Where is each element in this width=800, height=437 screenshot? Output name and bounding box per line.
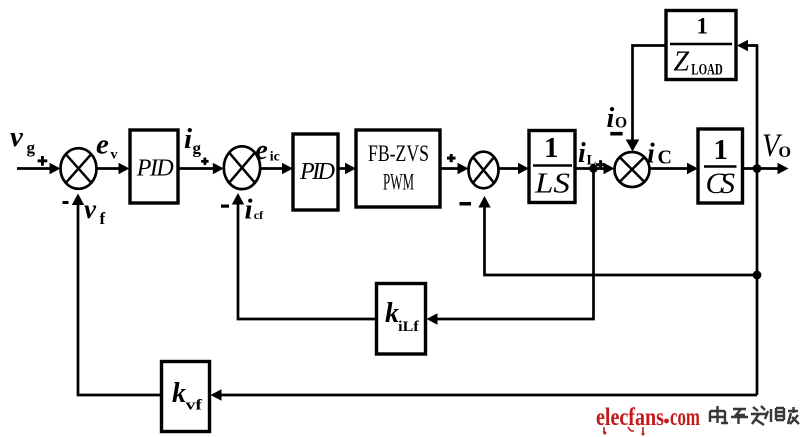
wire input to summing junction S1 (17, 163, 61, 174)
block k_iLf (377, 284, 426, 355)
wire V_O feedback to k_vf input (211, 389, 758, 400)
svg-text:i: i (245, 194, 253, 226)
svg-text:ic: ic (270, 150, 280, 165)
block FB-ZVS PWM (356, 130, 440, 207)
svg-text:f: f (100, 209, 106, 228)
wire k_iLf output to S2 minus input (232, 193, 377, 319)
svg-text:i: i (607, 103, 615, 134)
label v_g+ input (10, 121, 47, 166)
svg-text:PWM: PWM (383, 170, 414, 196)
svg-text:PID: PID (136, 156, 174, 182)
wire 1/LS to summing junction S4 (575, 163, 615, 174)
svg-text:PID: PID (299, 159, 335, 185)
logo elecfans.com (596, 404, 700, 436)
svg-text:g: g (193, 139, 202, 158)
svg-text:k: k (385, 298, 399, 329)
svg-text:v: v (84, 194, 97, 224)
sign minus at S3 (460, 202, 472, 206)
block PID1 (130, 130, 178, 203)
sign minus at S2 (221, 205, 229, 208)
wire i_L node down to k_iLf input (427, 169, 594, 325)
svg-text:i: i (578, 138, 586, 169)
label e_v (96, 129, 118, 163)
svg-text:1: 1 (544, 132, 559, 164)
label e_ic (255, 134, 280, 166)
wire S4 to 1/CS block (650, 163, 699, 174)
svg-text:e: e (96, 129, 109, 161)
wire S3 to 1/LS block (499, 163, 530, 174)
label i_L+ (578, 138, 605, 169)
label i_cf (245, 194, 265, 226)
svg-text:e: e (255, 134, 268, 166)
svg-text:vf: vf (186, 398, 204, 414)
block 1/LS (529, 131, 575, 203)
block 1/CS (698, 129, 743, 203)
sign plus at S3 (447, 154, 456, 162)
logo chinese characters (710, 406, 799, 425)
wire S2 to PID2 (260, 163, 293, 174)
summing junction S3 (469, 152, 499, 189)
svg-text:iLf: iLf (398, 319, 420, 335)
svg-text:LOAD: LOAD (691, 62, 723, 79)
svg-text:1: 1 (697, 14, 709, 39)
wire FB-ZVS to summing junction S3 (440, 163, 469, 174)
wire V_O node up to Z_LOAD input (737, 40, 757, 169)
wire 1/CS to output (743, 163, 789, 174)
node dot V_O (753, 164, 762, 173)
block PID2 (293, 134, 338, 210)
svg-text:C: C (658, 147, 672, 169)
svg-text:Z: Z (674, 47, 690, 78)
svg-text:O: O (615, 115, 627, 132)
wire S1 to PID1 (97, 163, 130, 174)
node dot i_L (589, 164, 598, 173)
svg-text:O: O (779, 144, 791, 161)
svg-text:v: v (10, 121, 24, 153)
summing junction S2 (224, 146, 260, 189)
block 1/Z_LOAD (666, 11, 736, 80)
svg-text:com: com (670, 404, 700, 431)
wire V_O node down to k_vf level (756, 169, 759, 396)
block k_vf (162, 362, 210, 432)
svg-text:cf: cf (254, 208, 264, 222)
label i_O and minus sign (607, 103, 628, 136)
summing junction S4 (615, 152, 650, 187)
wire branch to S3 minus input (478, 196, 757, 275)
wire k_vf output to S1 minus input (72, 194, 162, 396)
label i_C (647, 139, 672, 170)
label v_f (84, 194, 106, 228)
sign minus at S1 (63, 201, 69, 204)
label V_O output (762, 128, 791, 164)
summing junction S1 (61, 148, 97, 189)
wire PID2 to FB-ZVS block (338, 163, 356, 174)
node dot feedback branch (753, 271, 762, 280)
svg-text:i: i (647, 139, 655, 170)
svg-text:i: i (184, 123, 192, 155)
svg-text:g: g (27, 138, 36, 157)
svg-text:elecfans: elecfans (596, 404, 664, 431)
wire PID1 to summing junction S2 (178, 163, 224, 174)
svg-text:k: k (172, 378, 186, 409)
wire Z_LOAD output down into S4 (626, 46, 666, 152)
svg-text:CS: CS (706, 167, 736, 200)
svg-text:1: 1 (714, 134, 729, 166)
svg-text:v: v (111, 148, 118, 163)
label i_g+ (184, 123, 209, 165)
svg-text:FB-ZVS: FB-ZVS (368, 141, 429, 167)
svg-text:LS: LS (534, 168, 571, 200)
